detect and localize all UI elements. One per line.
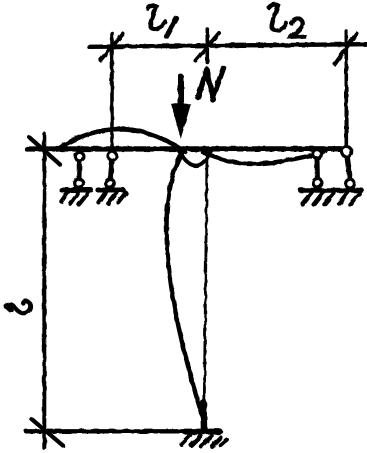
supports 3-4 hatching [303,192,360,204]
fixed support hatching at column base [181,435,227,446]
buckled beam shape right span (sag) [203,152,326,165]
support 1 bottom hinge [75,179,84,188]
pendulum support 3 link [315,159,320,179]
support 2 ground bar [98,188,123,193]
support 1 hatching [61,192,87,205]
buckled beam shape left span (hump) [57,129,186,152]
tick mark top of l [30,138,61,165]
support 2 bottom hinge [106,179,115,188]
force arrow N shaft [178,77,184,106]
support 4 bottom hinge [346,179,355,188]
tick mark bottom of l [32,419,64,446]
tick mark left (l1 start) [101,34,124,60]
column straight axis [204,152,207,430]
supports 3-4 ground bar [301,188,362,193]
support 1 top hinge [75,152,84,161]
extension line left (x=112) [110,33,114,151]
extension stub middle [206,29,210,63]
support 2 top hinge [108,152,117,161]
extension line right (x=346) [344,31,348,150]
support 4 top hinge [342,147,352,157]
column base thick segment [200,403,207,430]
label N [198,68,224,100]
support 3 bottom hinge [313,179,322,188]
dimension line top [89,44,366,47]
buckle knot at joint [179,151,211,166]
base line (bottom reference) [26,429,221,433]
support 2 hatching [98,192,125,204]
pendulum support 4 link [347,158,350,179]
pendulum support 1 link [77,160,83,179]
pendulum support 2 link [110,160,112,179]
force arrow N head [172,105,190,137]
support 3 top hinge [313,150,322,159]
label l2 [269,5,305,37]
tick mark right (l2 end) [335,34,357,65]
tick mark middle (l1/l2) [196,33,220,61]
beam (horizontal member) [27,146,341,151]
label l1 [148,6,177,37]
support 1 ground bar [62,188,92,193]
buckled column shape [167,151,205,428]
label l [6,301,31,313]
vertical dimension line l (left) [42,134,46,448]
